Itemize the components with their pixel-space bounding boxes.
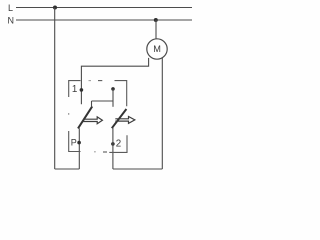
terminal dot 1 [80,88,84,92]
wire N junction to motor [155,20,157,39]
svg-text:M: M [153,44,161,54]
wire right top terminal / fixed contact [112,89,114,107]
wire from L junction down left side [54,8,56,170]
contact stub of S1 [91,101,93,106]
junction on L line [53,6,57,10]
wire stub to right top terminal [92,100,114,102]
wire L line [16,7,192,9]
switch S1 lever [78,106,92,128]
terminal dot top right [111,87,115,91]
svg-text:N: N [8,15,15,25]
wire terminal 2 down [112,128,114,169]
wire riser to terminal P [78,128,80,169]
svg-text:2: 2 [116,139,121,150]
switch S1 actuation arrow [83,117,102,124]
svg-text:P: P [71,138,77,148]
svg-text:1: 1 [72,84,77,95]
switch S2 lever [112,109,127,128]
wire N line [16,19,192,21]
wire up to motor bottom [161,58,163,169]
terminal dot P [77,141,81,145]
wire bottom right horizontal [113,168,162,170]
junction on N line [154,18,158,22]
wire bottom left horizontal [55,168,80,170]
terminal dot 2 [111,142,115,146]
motor M [147,39,167,59]
switch S2 actuation arrow [115,117,135,124]
pressure switch enclosure (dashed) [69,81,127,153]
wire motor to terminal 1 [81,58,148,104]
svg-text:L: L [8,3,13,13]
